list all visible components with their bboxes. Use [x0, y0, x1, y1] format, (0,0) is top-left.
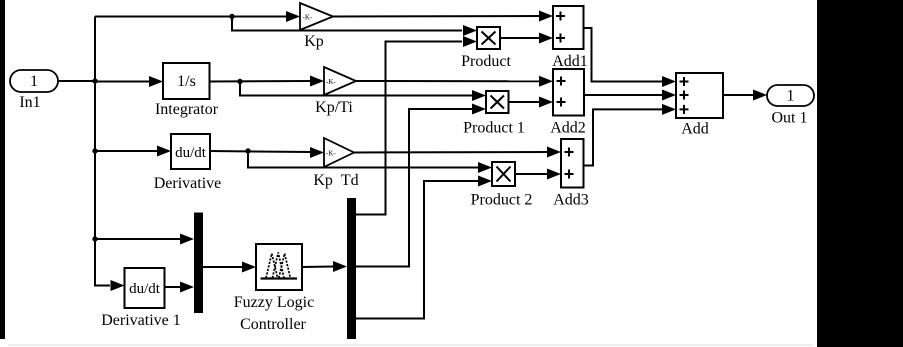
adder Add1: [553, 6, 584, 49]
wire Derivative1 to Mux input2: [165, 286, 181, 288]
gain Kp: [300, 3, 333, 30]
mux Mux: [194, 213, 203, 314]
adder Add3: [561, 139, 584, 188]
faint bottom page line: [8, 344, 813, 346]
svg-text:du/dt: du/dt: [175, 145, 207, 161]
wire Product1 to Add2 input2: [509, 101, 541, 103]
svg-text:Add: Add: [681, 121, 709, 138]
right black border bar: [817, 0, 903, 347]
wire Demux out3 to Product2 input2: [356, 181, 478, 319]
wire Demux out2 to Product1 input2: [356, 109, 472, 267]
gain Kp Td: [324, 138, 354, 167]
block Fuzzy Logic Controller U1: [256, 244, 302, 290]
wire Integrator to gain Kp/Ti: [210, 80, 310, 83]
wire Derivative to gain Kp Td: [210, 151, 310, 152]
wire Add to Out1: [723, 94, 753, 96]
wire branch to Integrator: [95, 81, 149, 83]
block Derivative du/dt: [171, 134, 210, 169]
wire Demux out1 to Product input2: [356, 42, 462, 215]
svg-text:In1: In1: [19, 94, 40, 111]
svg-text:Fuzzy Logic: Fuzzy Logic: [234, 294, 314, 311]
multiplier Product 1: [486, 91, 509, 113]
block Integrator 1/s: [163, 63, 210, 99]
wire Product2 to Add3 input2: [515, 173, 547, 175]
demux Demux: [347, 198, 356, 339]
svg-text:1: 1: [787, 88, 795, 105]
wire Add2 to Add input2: [584, 94, 662, 96]
svg-text:Kp: Kp: [304, 33, 324, 50]
multiplier Product: [477, 27, 500, 49]
node junction Kp line: [229, 14, 234, 19]
wire Fuzzy Logic Controller to Demux: [302, 266, 333, 269]
wire main branch vertical: [94, 17, 96, 286]
svg-text:Kp/Ti: Kp/Ti: [315, 99, 353, 116]
node junction Derivative branch: [92, 148, 97, 153]
svg-text:Product: Product: [461, 53, 511, 70]
svg-text:1: 1: [30, 73, 38, 90]
block Derivative1 du/dt: [125, 268, 165, 308]
node junction Derivative output: [245, 148, 250, 153]
svg-text:Derivative: Derivative: [154, 175, 222, 192]
wire gain Kp Td to Add3 input1: [354, 151, 547, 154]
node junction Integrator output: [237, 79, 242, 84]
svg-text:Controller: Controller: [240, 316, 306, 333]
svg-text:Derivative 1: Derivative 1: [101, 312, 181, 329]
svg-text:Add2: Add2: [550, 120, 586, 137]
wire Add3 to Add input3: [584, 109, 663, 165]
node junction In1/Integrator: [92, 78, 97, 83]
left black border bar: [0, 0, 5, 339]
wire Derivative tap to Product2 input1: [248, 151, 478, 168]
svg-text:Integrator: Integrator: [155, 101, 219, 118]
multiplier Product 2: [492, 162, 515, 186]
svg-text:Product 2: Product 2: [471, 192, 533, 209]
wire Integrator tap to Product1 input1: [240, 82, 472, 96]
input port In1: [10, 70, 58, 92]
wire branch to Derivative: [95, 150, 157, 152]
svg-text:-K-: -K-: [326, 78, 336, 86]
wire Add1 to Add input1: [584, 28, 663, 82]
wire In1 to branch node: [58, 80, 95, 82]
wire Mux to Fuzzy Logic Controller: [203, 266, 242, 268]
wire branch to gain Kp: [95, 16, 288, 18]
wire Product to Add1 input2: [500, 37, 540, 39]
wire Kp-line tap to Product input1: [232, 17, 462, 31]
svg-text:Add1: Add1: [552, 53, 588, 70]
adder Add2: [553, 69, 584, 116]
svg-text:Kp Td: Kp Td: [313, 172, 358, 189]
svg-text:du/dt: du/dt: [129, 281, 161, 297]
svg-text:Add3: Add3: [553, 192, 589, 209]
wire gain Kp/Ti to Add2 input1: [356, 80, 540, 82]
wire branch to Mux input1: [95, 238, 180, 240]
gain Kp/Ti: [324, 67, 356, 95]
adder Add: [676, 73, 723, 118]
svg-text:-K-: -K-: [303, 14, 313, 22]
svg-text:Out 1: Out 1: [772, 110, 808, 127]
svg-text:Product 1: Product 1: [463, 120, 525, 137]
wire gain Kp to Add1 input1: [333, 15, 540, 18]
wire branch to Derivative1: [95, 239, 110, 286]
svg-text:-K-: -K-: [326, 150, 336, 158]
node junction Mux branch: [92, 236, 97, 241]
svg-text:1/s: 1/s: [177, 73, 196, 90]
output port Out 1: [767, 85, 814, 106]
